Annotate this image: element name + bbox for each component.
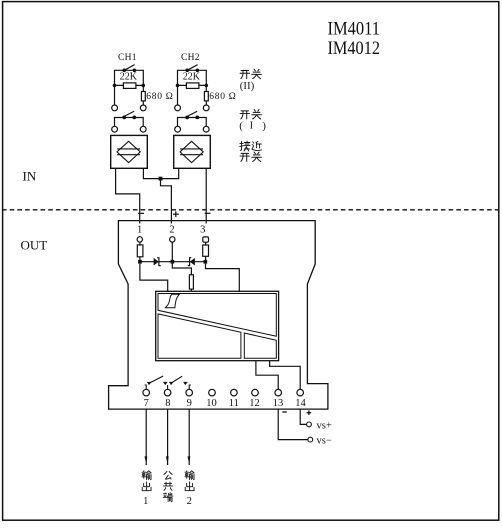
svg-text:8: 8 xyxy=(165,398,170,409)
svg-text:7: 7 xyxy=(144,398,149,409)
svg-text:vs−: vs− xyxy=(317,436,332,447)
svg-text:680 Ω: 680 Ω xyxy=(209,92,236,102)
svg-text:9: 9 xyxy=(187,398,192,409)
svg-text:1: 1 xyxy=(143,496,148,507)
svg-text:680 Ω: 680 Ω xyxy=(146,92,173,102)
svg-text:14: 14 xyxy=(295,398,306,409)
svg-text:): ) xyxy=(262,120,266,132)
svg-text:(II): (II) xyxy=(240,81,255,92)
svg-text:OUT: OUT xyxy=(21,238,48,253)
svg-text:11: 11 xyxy=(229,398,239,409)
svg-text:CH1: CH1 xyxy=(118,53,137,63)
svg-text:2: 2 xyxy=(169,225,174,236)
svg-text:3: 3 xyxy=(200,225,205,236)
svg-text:22K: 22K xyxy=(183,72,201,83)
svg-text:13: 13 xyxy=(273,398,284,409)
svg-text:IM4011: IM4011 xyxy=(328,19,381,40)
svg-text:CH2: CH2 xyxy=(181,53,200,63)
svg-text:IM4012: IM4012 xyxy=(328,38,381,59)
svg-text:IN: IN xyxy=(23,169,37,184)
svg-text:(: ( xyxy=(239,120,243,132)
svg-text:2: 2 xyxy=(187,496,192,507)
svg-text:1: 1 xyxy=(137,225,142,236)
svg-text:10: 10 xyxy=(206,398,217,409)
svg-text:I: I xyxy=(250,121,254,132)
svg-text:22K: 22K xyxy=(120,72,138,83)
svg-text:vs+: vs+ xyxy=(317,420,332,431)
svg-text:12: 12 xyxy=(249,398,260,409)
